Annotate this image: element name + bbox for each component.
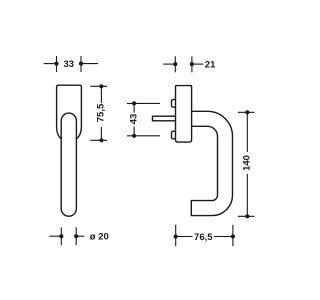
- svg-text:21: 21: [205, 60, 216, 71]
- svg-text:43: 43: [128, 114, 139, 125]
- svg-text:ø 20: ø 20: [90, 232, 109, 243]
- svg-text:140: 140: [242, 155, 253, 171]
- svg-text:76,5: 76,5: [194, 232, 213, 243]
- svg-text:33: 33: [64, 59, 75, 70]
- svg-text:75,5: 75,5: [96, 103, 107, 122]
